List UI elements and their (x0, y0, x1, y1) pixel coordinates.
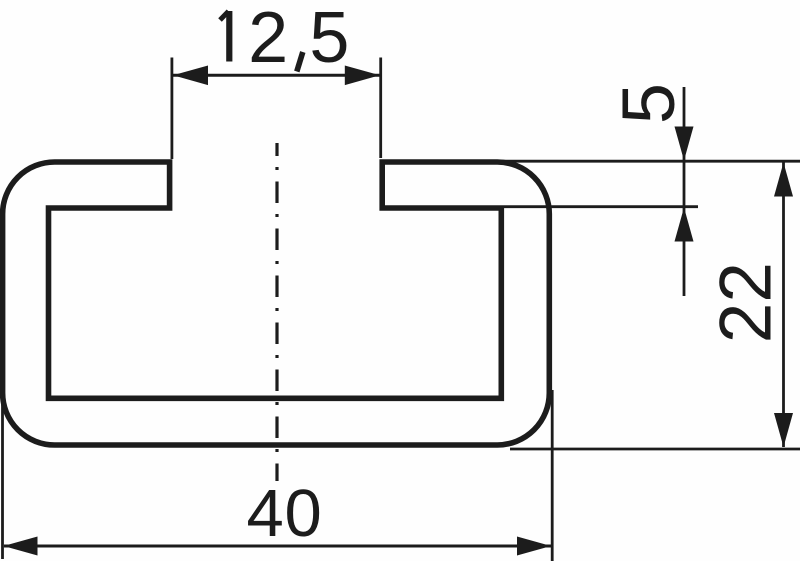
dimension line 22 (vertical) (782, 163, 785, 448)
label 12,5 : comma (custom) (297, 52, 303, 72)
arrowhead 22 down (774, 413, 793, 447)
svg-text:22: 22 (706, 262, 787, 343)
top extension line (y=161) (494, 160, 800, 163)
svg-text:5: 5 (607, 83, 690, 124)
arrowhead 5 up (675, 208, 694, 242)
svg-text:4: 4 (247, 476, 284, 551)
arrowhead 12,5 left (173, 66, 208, 86)
arrowhead 5 down (675, 127, 694, 161)
extension line 40 right (551, 390, 554, 561)
arrowhead 40 right (517, 537, 551, 556)
C-profile cross-section outline (3, 162, 550, 445)
bottom extension line (y=449) (510, 448, 800, 451)
extension line left of 12,5 (170, 58, 173, 160)
dimension line 5 (vertical) (683, 87, 686, 296)
svg-text:2: 2 (248, 0, 288, 78)
svg-text:5: 5 (309, 0, 349, 78)
extension line right of 12,5 (379, 58, 382, 159)
arrowhead 40 left (4, 537, 38, 556)
arrowhead 12,5 right (345, 66, 380, 86)
lip extension line (y=206.7) (504, 205, 698, 208)
arrowhead 22 up (774, 163, 793, 197)
extension line 40 left (1, 393, 4, 559)
dimension line 40 (4, 545, 551, 548)
label 12,5 : digit 1 (custom) (220, 11, 229, 20)
dimension line 12,5 (173, 74, 380, 77)
svg-text:0: 0 (285, 476, 322, 551)
centerline (dash-dot) (275, 143, 278, 481)
